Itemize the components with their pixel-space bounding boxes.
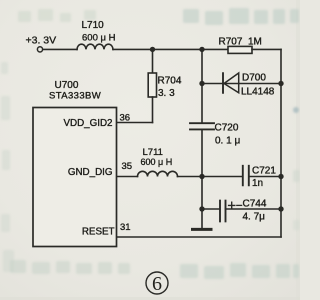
svg-text:R704: R704 — [158, 76, 182, 87]
svg-text:1n: 1n — [252, 178, 263, 189]
svg-text:GND_DIG: GND_DIG — [68, 167, 113, 178]
svg-text:3. 3: 3. 3 — [158, 88, 175, 99]
svg-text:600 μ H: 600 μ H — [82, 33, 116, 44]
svg-text:4. 7μ: 4. 7μ — [243, 212, 266, 223]
svg-text:C744: C744 — [243, 199, 267, 210]
svg-text:STA333BW: STA333BW — [49, 91, 101, 102]
svg-text:6: 6 — [152, 273, 162, 295]
svg-text:L710: L710 — [82, 20, 105, 31]
svg-text:R707: R707 — [219, 37, 243, 48]
svg-text:600 μ H: 600 μ H — [141, 157, 173, 167]
svg-text:36: 36 — [120, 113, 131, 124]
svg-text:LL4148: LL4148 — [241, 87, 275, 98]
svg-text:31: 31 — [120, 222, 131, 233]
svg-text:D700: D700 — [242, 73, 266, 84]
svg-text:U700: U700 — [55, 80, 79, 91]
svg-text:VDD_GID2: VDD_GID2 — [64, 118, 113, 129]
svg-text:C720: C720 — [215, 123, 239, 134]
svg-text:1M: 1M — [248, 37, 262, 48]
svg-text:C721: C721 — [252, 166, 276, 177]
svg-text:0. 1 μ: 0. 1 μ — [215, 136, 240, 147]
svg-text:RESET: RESET — [82, 227, 115, 238]
svg-text:35: 35 — [122, 161, 133, 172]
svg-text:+3. 3V: +3. 3V — [26, 35, 57, 47]
